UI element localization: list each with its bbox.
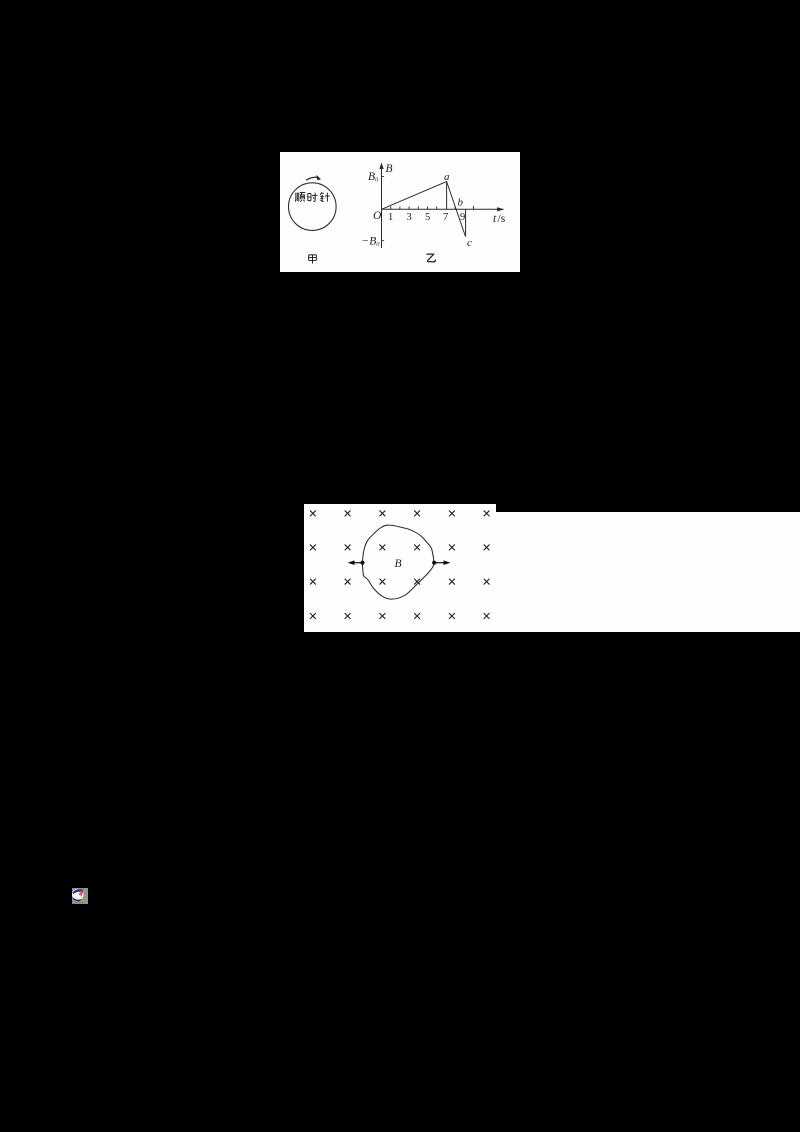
svg-text:b: b: [458, 197, 464, 209]
svg-text:3: 3: [407, 212, 412, 223]
时: [308, 193, 311, 200]
grid of x (B into page) symbols: [310, 511, 489, 619]
icon red streak: [79, 891, 84, 897]
icon navy top arc: [73, 889, 84, 894]
y axis arrowhead: [379, 163, 383, 170]
left force arrow: [352, 562, 363, 564]
drop line a to t=7: [446, 182, 448, 210]
left dot on loop: [360, 561, 364, 565]
icon gray square: [72, 888, 88, 904]
svg-text:a: a: [444, 171, 450, 183]
label 甲: [309, 255, 317, 264]
right dot on loop: [432, 561, 436, 565]
clockwise rotation arrow: [306, 177, 319, 180]
irregular conducting loop: [362, 525, 433, 599]
figure 1: circle + B-t graph: [280, 152, 520, 272]
figure 2 white band to right page edge: [304, 512, 800, 632]
icon dark purple bottom arc: [73, 897, 81, 901]
svg-text:9: 9: [460, 212, 465, 223]
svg-text:B0: B0: [368, 171, 379, 184]
svg-text:−B0: −B0: [362, 235, 381, 248]
tiny image-placeholder icon: [72, 888, 88, 904]
针: [320, 192, 322, 195]
x axis: [382, 208, 501, 210]
svg-text:B: B: [395, 558, 402, 570]
B-t curve: rise O to a, drop to c: [382, 182, 466, 237]
B-t graph axes: [382, 166, 501, 248]
svg-text:B: B: [386, 163, 393, 175]
figure 2 white top sliver: [304, 504, 496, 512]
t-axis tick marks: [391, 206, 474, 209]
B-axis tick marks at B0 and -B0: [382, 177, 385, 241]
svg-text:1: 1: [388, 212, 393, 223]
svg-text:O: O: [373, 210, 382, 222]
svg-text:t: t: [493, 213, 497, 225]
y axis: [381, 166, 383, 248]
right force arrow: [434, 562, 445, 564]
svg-text:7: 7: [443, 212, 448, 223]
icon yellow dot: [81, 897, 83, 899]
svg-text:/s: /s: [498, 213, 506, 225]
circle (ring labeled clockwise): [289, 183, 337, 231]
line t=9 to c: [465, 209, 467, 236]
icon white blob: [72, 889, 84, 900]
svg-text:5: 5: [425, 212, 430, 223]
label 乙: [427, 254, 436, 262]
icon gray right strip: [84, 888, 88, 904]
x axis arrowhead: [497, 207, 505, 211]
figure 2: field of crosses with conducting loop: [304, 504, 496, 632]
text 顺时针 (drawn strokes): [295, 192, 305, 201]
axis ticks t=1..10: [382, 177, 474, 241]
B-t curve O to a to c: [382, 182, 466, 237]
顺: [291, 193, 301, 202]
svg-text:c: c: [467, 237, 472, 249]
